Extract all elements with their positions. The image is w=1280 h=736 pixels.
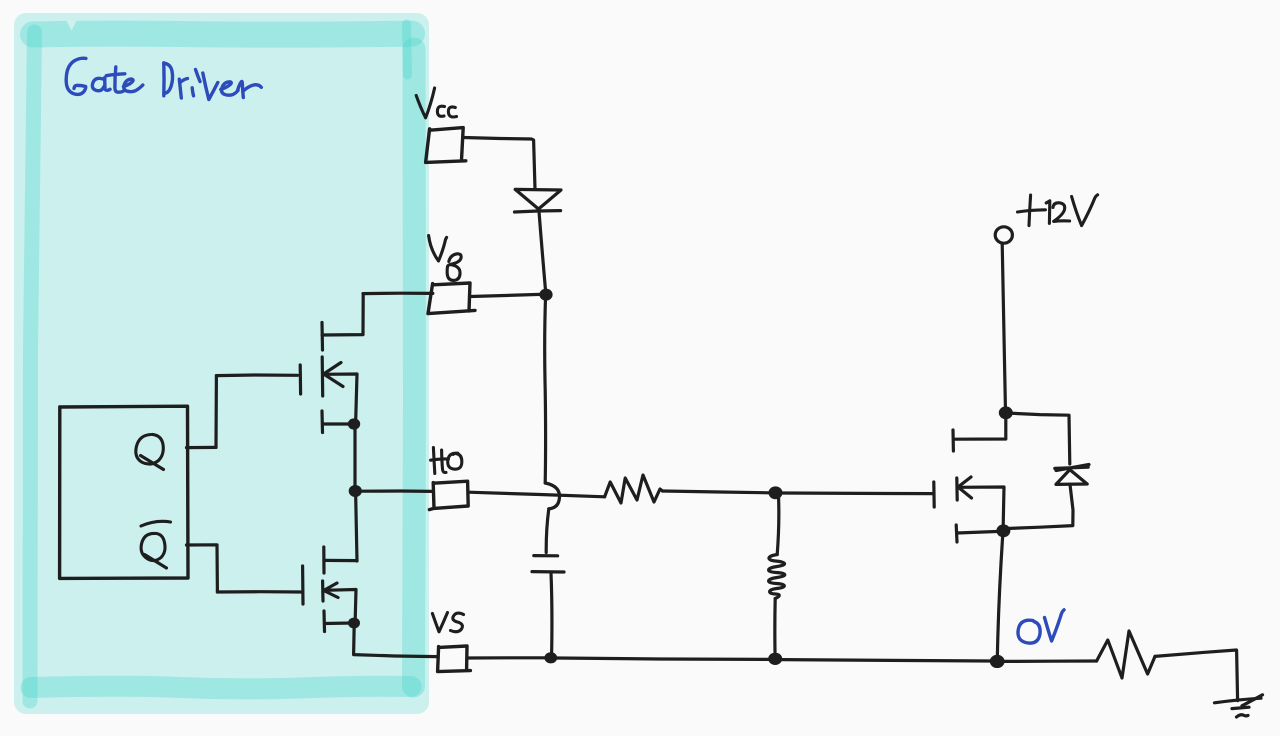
transistor Q3 source stub [955,525,959,542]
wire Vcc to diode [464,138,536,190]
diode D2 (body diode) cathode bar [1055,465,1089,471]
wire VB box left to M1 drain [363,292,433,296]
wire M2 source to VS terminal [354,624,437,657]
wire HO node to HO box [361,489,432,493]
label HO [433,448,434,474]
transistor Q3 arrow [958,477,972,498]
node M2 source junction [348,618,360,629]
wire R3 to ground corner [1155,650,1236,656]
transistor Q3 channel segment [955,478,959,500]
wire to M2 gate [217,590,301,593]
node drain junction [999,406,1013,419]
wire diode to VB node [539,212,546,294]
transistor M2 gate bar [301,566,305,604]
resistor R2 (pulldown) [769,555,785,599]
transistor M2 drain stub [322,547,325,573]
transistor M1 arrow [324,363,343,387]
node VB junction [539,289,552,301]
highlight region (Gate Driver block) [14,13,429,714]
wire VB node down to crossover hop [543,296,547,484]
wire HO box to resistor R1 [468,492,604,497]
transistor Q3 source lead [958,487,1004,525]
transistor M2 source stub [322,611,326,632]
transistor Q3 drain stub [951,430,955,451]
transistor Q3 gate bar [932,482,936,507]
wire body diode bottom to source [1009,484,1073,528]
label VB [429,236,447,262]
transistor M2 source lead [324,590,356,621]
label OV [1018,620,1040,643]
terminal Vcc box [426,128,466,163]
ground [1215,698,1262,703]
node source junction [996,524,1010,537]
label Q-bar [141,533,165,560]
wire capacitor to VS line [549,573,553,655]
label Vcc [416,88,434,118]
wire R2 to VS line [773,599,777,653]
transistor M1 source stub [320,411,324,433]
wire gate node to power MOSFET gate [782,491,932,495]
latch box (Q / Q-bar block) [60,406,188,578]
capacitor C1 bottom plate [532,570,564,574]
wire VS line R2 node to source node [782,660,991,661]
transistor M1 (high-side driver NMOS) gate bar [299,365,303,394]
diode D2 triangle [1056,470,1087,485]
node R2/VS junction [768,653,782,665]
wire source to VS node [997,537,1002,655]
diode D1 (bootstrap) [515,189,561,209]
resistor R3 (load/shunt) [1097,631,1155,678]
node C1/VS junction [544,652,557,663]
terminal HO box [429,481,468,509]
wire +12V to drain node [1002,244,1005,407]
wire VS node to resistor R3 [1004,659,1097,663]
terminal VB box [428,283,475,314]
label Q [136,434,163,464]
wire HO node down to M2 drain [356,492,357,562]
transistor Q3 (power NMOS) drain lead [954,418,1006,439]
label "Gate Driver" [66,58,261,99]
capacitor C1 (bootstrap) top plate [534,554,558,557]
label VS [432,613,447,632]
diode D1 cathode bar [515,211,561,212]
wire drain node to body diode top [1006,413,1070,464]
wire VB box right to VB node [471,294,541,296]
wire Q output to node [187,446,217,449]
wire M1 source to HO node [353,425,356,491]
resistor R1 (gate resistor) [605,475,663,503]
transistor M1 drain stub [320,323,324,351]
wire VS line C1 node to R2 node [557,658,769,659]
wire node up to M1 gate [214,376,218,448]
node HO junction [349,485,362,497]
transistor M2 arrow [324,583,338,598]
wire down to ground [1237,651,1238,701]
wire R1 to gate node [663,491,770,493]
transistor M2 (low-side driver NMOS) drain lead [324,559,357,562]
terminal VS box [438,646,471,672]
wire to M1 gate [216,373,297,377]
node VS/source junction [990,655,1005,668]
wire hop over HO line [545,483,559,509]
transistor M1 drain lead [322,294,363,335]
transistor M2 channel segment [321,581,325,601]
node gate junction [769,486,783,499]
label +12V [1018,210,1046,212]
node M1 source junction [348,418,360,429]
wire VS box to C1 node [468,656,545,659]
+12V supply terminal circle [995,227,1012,243]
wire hop to capacitor [546,509,549,553]
wire Q-bar output [187,545,218,592]
transistor M1 source lead [324,374,357,424]
transistor M1 channel segment [321,357,325,396]
wire gate node down to R2 [777,499,779,555]
